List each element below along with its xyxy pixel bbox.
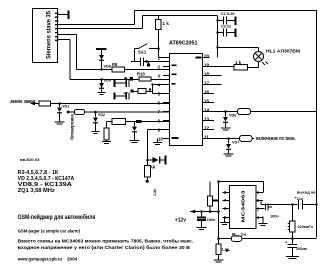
svg-text:19: 19 [204, 63, 210, 68]
svg-text:12v: 12v [297, 197, 303, 201]
svg-text:1 k: 1 k [163, 21, 170, 26]
svg-text:GSM-пейджер для автомобиля: GSM-пейджер для автомобиля [18, 214, 96, 221]
svg-text:R.. 1к: R.. 1к [232, 233, 246, 237]
svg-text:15: 15 [204, 99, 210, 104]
svg-text:3: 3 [157, 74, 160, 79]
svg-text:КД: КД [151, 165, 156, 169]
svg-text:13: 13 [204, 117, 210, 122]
svg-text:VD2: VD2 [98, 113, 105, 117]
svg-text:включение по звон.: включение по звон. [256, 136, 296, 142]
svg-text:20: 20 [204, 54, 210, 59]
svg-text:1 k: 1 k [235, 60, 242, 65]
svg-text:VD9: VD9 [104, 79, 111, 83]
svg-text:C2 22: C2 22 [221, 25, 231, 29]
svg-text:MC34063: MC34063 [241, 190, 246, 223]
svg-text:VD1: VD1 [62, 105, 69, 109]
svg-text:GSM-pager (a simple car alarm): GSM-pager (a simple car alarm) [18, 229, 81, 235]
svg-text:100n: 100n [270, 215, 279, 219]
svg-text:VD6: VD6 [229, 114, 236, 118]
svg-text:Вместо схемы на MC34063 можно: Вместо схемы на MC34063 можно применить … [18, 238, 194, 244]
svg-text:+12v: +12v [175, 217, 186, 223]
svg-text:R8: R8 [112, 62, 118, 67]
svg-text:входное напряжение у него (или: входное напряжение у него (или Charter C… [18, 244, 191, 250]
svg-text:18: 18 [204, 72, 210, 77]
svg-text:100мк: 100мк [296, 247, 307, 251]
svg-text:1: 1 [157, 56, 160, 61]
svg-text:1,5к: 1,5к [153, 189, 157, 196]
svg-text:вв.810.03: вв.810.03 [20, 158, 40, 162]
svg-text:www.gsmpager.spb.ru: www.gsmpager.spb.ru [17, 256, 62, 261]
svg-text:2004: 2004 [67, 256, 78, 261]
svg-text:HL1 АЛ307БМ: HL1 АЛ307БМ [266, 48, 300, 54]
svg-text:Siemens slave 35: Siemens slave 35 [47, 10, 53, 59]
svg-text:2: 2 [157, 65, 160, 70]
svg-text:AT89C2051: AT89C2051 [169, 41, 198, 47]
svg-text:14: 14 [204, 108, 210, 113]
svg-text:10: 10 [158, 137, 164, 142]
svg-text:ZQ1 3,58 MHz: ZQ1 3,58 MHz [18, 188, 56, 194]
svg-text:17: 17 [204, 81, 210, 86]
svg-text:47: 47 [124, 91, 129, 96]
svg-text:SA1: SA1 [138, 50, 147, 55]
svg-text:выход на: выход на [297, 189, 316, 194]
svg-text:12: 12 [204, 126, 210, 131]
svg-text:VD8: VD8 [104, 65, 111, 69]
svg-text:100n: 100n [207, 218, 216, 222]
svg-text:R10: R10 [137, 72, 145, 77]
svg-text:блокировка: блокировка [69, 114, 74, 140]
svg-text:+: + [285, 240, 288, 245]
svg-text:220мкГн: 220мкГн [298, 225, 314, 229]
svg-text:11: 11 [204, 135, 209, 140]
svg-text:VD7: VD7 [232, 141, 239, 145]
svg-text:16: 16 [204, 90, 210, 95]
svg-text:C1 5-20: C1 5-20 [221, 12, 235, 16]
